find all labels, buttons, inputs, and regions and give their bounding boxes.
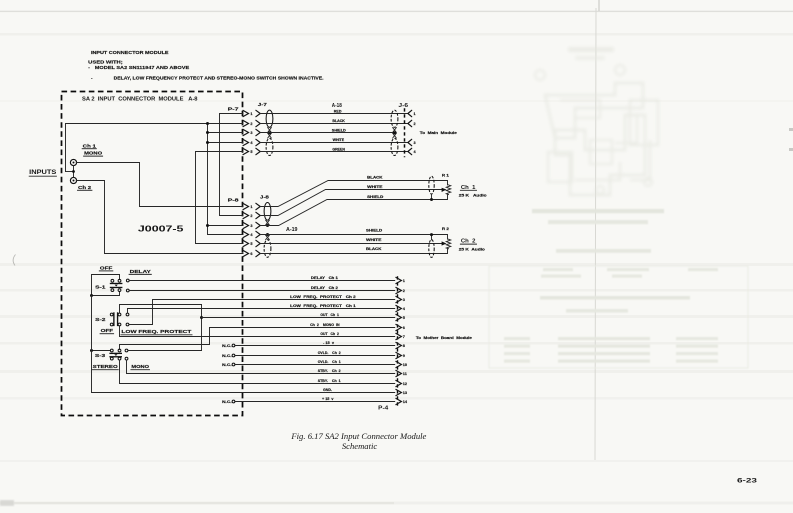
shield stub X at J-6 <box>393 128 397 133</box>
svg-text:J-6: J-6 <box>398 103 408 109</box>
svg-text:WHITE: WHITE <box>333 138 345 142</box>
svg-text:INPUT CONNECTOR MODULE: INPUT CONNECTOR MODULE <box>91 50 169 55</box>
shield stub X at J-7 <box>268 128 272 133</box>
svg-text:INPUTS: INPUTS <box>29 169 56 176</box>
connector J-8 contact 2 <box>256 212 260 218</box>
svg-text:SA 2 INPUT CONNECTOR MODULE: SA 2 INPUT CONNECTOR MODULE A-8 <box>82 96 198 102</box>
svg-text:R 2: R 2 <box>442 227 449 231</box>
svg-text:- 15 v: - 15 v <box>323 341 335 345</box>
switch S-1 frame wiring <box>90 275 120 298</box>
switch S-1 body <box>110 279 123 291</box>
N.C. stub at P-4 pin 10 <box>222 363 395 367</box>
junction: shield to R2 top <box>431 235 433 240</box>
wire: shield bus vertical (P-7 pins 3,4 to P-8 pins 3,4) <box>206 122 243 235</box>
wire: DELAY Ch 1 to P-4 pin 1 <box>129 280 394 282</box>
svg-text:5: 5 <box>250 242 252 246</box>
N.C. stub at P-4 pin 8 <box>222 344 395 348</box>
wire: common bus vertical to GND <box>92 296 395 393</box>
connector J-6 pin 1 <box>408 110 416 116</box>
connector P-4 pin 7 with label <box>320 332 405 340</box>
wire: V1 vertical with OUT Ch 1 tap <box>200 305 203 351</box>
jack Ch 2 input connector <box>70 177 92 190</box>
svg-text:A-19: A-19 <box>286 227 298 233</box>
svg-text:BLACK: BLACK <box>366 247 382 251</box>
wire: S-2 upper contact to LOW FREQ. PROTECT Ch 1 (P-4 pin 4) <box>128 309 395 313</box>
connector P-7 pin 1 <box>243 110 253 116</box>
svg-text:OVLD. Ch 1: OVLD. Ch 1 <box>318 360 341 364</box>
label STEREO <box>92 364 118 370</box>
svg-text:LOW FREQ. PROTECT: LOW FREQ. PROTECT <box>121 329 191 334</box>
wire A-18 SHIELD <box>260 132 394 134</box>
connector J-7 contact 3 <box>256 129 260 135</box>
connector P-4 pin 6 with label <box>310 323 405 331</box>
note: header description text <box>88 50 323 81</box>
wire A-18 WHITE <box>260 142 408 144</box>
svg-text:2: 2 <box>250 122 252 126</box>
connector P-4 pin 1 with label <box>311 276 405 284</box>
module A-8 dashed boundary box <box>62 92 243 416</box>
svg-text:- MODEL SA2 SN111947 AND ABO: - MODEL SA2 SN111947 AND ABOVE <box>88 65 189 70</box>
svg-text:R 1: R 1 <box>442 174 449 178</box>
N.C. stub at P-4 pin 14 <box>222 400 395 404</box>
connector P-4 pin 12 with label <box>318 379 407 387</box>
svg-text:Fig. 6.17 SA2 Input Connector: Fig. 6.17 SA2 Input Connector Module <box>290 431 426 441</box>
connector P-7 pin 5 <box>243 148 253 154</box>
svg-text:N.C.: N.C. <box>222 354 232 358</box>
svg-text:LOW FREQ. PROTECT Ch 2: LOW FREQ. PROTECT Ch 2 <box>290 295 356 299</box>
cable A-18 shield oval at J-7 (pair 1-2) <box>266 110 273 127</box>
svg-text:3: 3 <box>414 141 416 145</box>
svg-text:USED WITH;: USED WITH; <box>88 60 123 65</box>
shield oval at R2 <box>429 240 434 258</box>
connector P-4 pin 13 with label <box>323 388 407 396</box>
wire: P-8 pin 6 BLACK (Ch 2) to R2 <box>260 249 447 254</box>
svg-text:12: 12 <box>403 382 407 386</box>
svg-text:DELAY Ch 1: DELAY Ch 1 <box>311 276 338 280</box>
svg-text:GREEN: GREEN <box>332 147 345 151</box>
svg-text:3: 3 <box>250 224 252 228</box>
svg-text:Ch 2: Ch 2 <box>78 185 92 190</box>
wire: S-3 frame bottom to STBY Ch 1 (P-4 pin 12) <box>120 360 395 384</box>
svg-text:3: 3 <box>250 131 252 135</box>
svg-text:OFF: OFF <box>101 328 114 333</box>
svg-text:Schematic: Schematic <box>342 441 377 451</box>
connector P-4 pin 4 with label <box>290 304 406 312</box>
wire: S-2 frame top to V1 <box>120 305 202 313</box>
wire: S-2 lower contact to LOW FREQ. PROTECT Ch 2 (P-4 pin 3) <box>129 300 395 325</box>
cable A-18 shield oval at J-6 (pair 4-5) <box>391 138 398 155</box>
wire: S-3 MONO lower contact to STBY Ch 2 (P-4 pin 11) <box>127 360 395 374</box>
switch S-1 output contacts <box>126 279 129 292</box>
svg-text:WHITE: WHITE <box>366 238 382 242</box>
wire: OUT Ch 1 to P-4 pin 5 <box>202 317 395 319</box>
svg-text:N.C.: N.C. <box>222 363 232 367</box>
connector J-7 contact 2 <box>256 120 260 126</box>
svg-text:S-1: S-1 <box>95 285 106 290</box>
jack Ch 1 (MONO) input connector <box>70 143 102 165</box>
label OFF (S-2) <box>100 328 114 334</box>
wire: DELAY Ch 2 to P-4 pin 2 <box>129 290 394 292</box>
svg-text:SHIELD: SHIELD <box>366 229 383 233</box>
label DELAY <box>129 269 152 275</box>
svg-text:6: 6 <box>403 326 405 330</box>
connector P-7 pin 4 <box>243 139 253 145</box>
connector J-7 contact 5 <box>256 148 260 154</box>
wire: J-8 pin 3 diagonal to SHIELD (Ch 1) <box>260 195 447 226</box>
connector P-7 pin 3 <box>243 129 253 135</box>
svg-text:2: 2 <box>250 214 252 218</box>
connector J-6 dashed boundary <box>404 108 406 157</box>
wire: Ch 2 jack to P-8 pin 6 <box>76 181 243 254</box>
svg-text:6-23: 6-23 <box>737 478 758 485</box>
connector J-8 contact 3 <box>256 222 260 228</box>
svg-text:25 K Audio: 25 K Audio <box>459 248 485 252</box>
svg-text:To Mother Board Module: To Mother Board Module <box>416 336 472 340</box>
shield oval at R1 <box>429 176 434 194</box>
svg-text:1: 1 <box>250 205 252 209</box>
connector J-7 contact 4 <box>256 139 260 145</box>
node INPUTS label <box>29 169 56 176</box>
connector J-8 contact 4 <box>256 231 260 237</box>
wire: S-3 MONO upper contact to V1 bottom <box>128 350 201 352</box>
potentiometer R2 body <box>446 239 450 249</box>
connector P-8 pin 1 <box>243 203 253 209</box>
svg-text:OUT Ch 2: OUT Ch 2 <box>320 332 339 336</box>
cable shield oval at J-8 (Ch 1 pair) <box>264 203 271 221</box>
wire: P-7 pin 5 to P-8 pin 5 <box>196 152 244 244</box>
wire A-18 RED <box>260 113 408 115</box>
svg-text:13: 13 <box>403 391 407 395</box>
junction: Ch 2 shield at A-19 <box>266 233 269 236</box>
wire A-18 GREEN <box>260 151 408 153</box>
N.C. stub at P-4 pin 9 <box>222 354 395 358</box>
svg-text:8: 8 <box>403 344 405 348</box>
wire: jack common tie with junction <box>66 166 75 178</box>
svg-text:RED: RED <box>334 110 342 114</box>
svg-text:To Main Module: To Main Module <box>420 131 457 135</box>
svg-text:P-4: P-4 <box>378 405 388 411</box>
connector P-4 pin 9 with label <box>318 351 405 359</box>
label OFF (S-1) <box>99 265 113 271</box>
svg-text:Ch 1: Ch 1 <box>83 143 97 148</box>
connector J-8 contact 6 <box>256 250 260 256</box>
connector J-6 pin 2 <box>408 120 416 126</box>
connector J-7 contact 1 <box>256 110 260 116</box>
svg-text:DELAY, LOW FREQUENCY PROTECT A: DELAY, LOW FREQUENCY PROTECT AND STEREO-… <box>114 76 324 81</box>
svg-text:2: 2 <box>403 289 405 293</box>
svg-text:WHITE: WHITE <box>367 185 383 189</box>
cable A-18 shield oval at J-6 (pair 1-2) <box>391 110 398 127</box>
cable A-18 shield oval at J-7 (pair 4-5) <box>266 138 273 155</box>
svg-text:GND.: GND. <box>323 388 332 392</box>
connector P-4 pin 8 with label <box>323 341 405 349</box>
svg-text:7: 7 <box>403 335 405 339</box>
junction: shield at J-7 <box>268 131 271 134</box>
svg-text:6: 6 <box>250 252 252 256</box>
svg-text:A-18: A-18 <box>332 103 342 109</box>
svg-text:OFF: OFF <box>100 265 113 270</box>
wire A-18 BLACK <box>260 123 408 125</box>
wire: common bus to S-3 <box>92 350 111 352</box>
wiper arrow of R1 <box>442 188 447 192</box>
svg-text:BLACK: BLACK <box>332 119 345 123</box>
wire: input common up to P-7 pin 2 line <box>66 124 244 172</box>
svg-text:BLACK: BLACK <box>367 176 383 180</box>
svg-text:N.C.: N.C. <box>222 344 232 348</box>
connector P-8 pin 4 <box>243 231 253 237</box>
connector P-4 pin 10 with label <box>318 360 407 368</box>
svg-text:MONO: MONO <box>131 364 149 369</box>
shield stub at A-19 oval <box>266 235 270 239</box>
connector P-4 pin 14 with label <box>322 397 408 405</box>
svg-text:SHIELD: SHIELD <box>367 195 384 199</box>
switch S-3 body <box>109 349 122 360</box>
svg-text:5: 5 <box>250 150 252 154</box>
wire: Ch 2 MONO IN to P-4 pin 6 <box>210 327 395 329</box>
label MONO <box>131 364 150 370</box>
wire: P-7 pin 1 to P-8 pin 2 <box>220 114 244 216</box>
svg-text:1: 1 <box>403 279 405 283</box>
switch S-2 input contacts <box>126 313 129 326</box>
connector J-6 pin 4 <box>408 148 417 154</box>
potentiometer R1 body <box>446 185 450 195</box>
wire: Ch 1 jack to P-8 pin 1 <box>76 163 243 207</box>
svg-text:+ 15 v: + 15 v <box>322 397 334 401</box>
connector P-8 pin 2 <box>243 212 253 218</box>
svg-text:P-7: P-7 <box>228 107 240 112</box>
label LOW FREQ. PROTECT <box>121 329 192 335</box>
connector P-8 pin 6 <box>243 250 253 256</box>
cable A-19 shield oval (Ch 2 pair) <box>264 240 271 258</box>
wire: V2 Ch 2 MONO IN riser <box>120 328 210 350</box>
svg-text:S-3: S-3 <box>95 353 106 358</box>
label Ch 1 / 25 K Audio <box>459 185 487 198</box>
svg-text:1: 1 <box>414 112 416 116</box>
svg-text:Ch 2 MONO IN: Ch 2 MONO IN <box>310 323 340 327</box>
svg-text:J-8: J-8 <box>260 194 270 199</box>
svg-text:MONO: MONO <box>84 151 102 156</box>
svg-text:J-7: J-7 <box>258 102 268 107</box>
connector P-4 dashed boundary <box>397 276 399 406</box>
svg-text:11: 11 <box>403 372 407 376</box>
connector J-8 contact 1 <box>256 203 260 209</box>
svg-text:3: 3 <box>403 298 405 302</box>
switch S-2 body <box>110 312 121 326</box>
svg-text:LOW FREQ. PROTECT Ch 1: LOW FREQ. PROTECT Ch 1 <box>290 304 356 308</box>
wiper arrow of R2 <box>442 241 447 245</box>
svg-text:25 K Audio: 25 K Audio <box>459 194 487 198</box>
connector P-7 pin 2 <box>243 120 253 126</box>
wire: P-8 pin 4 SHIELD (Ch 2) to R2 <box>260 235 447 240</box>
svg-text:5: 5 <box>403 316 405 320</box>
svg-text:N.C.: N.C. <box>222 400 232 404</box>
junction: shield to R1 bottom <box>431 194 433 200</box>
junction: Ch 1 shield at J-8 <box>266 224 269 227</box>
connector P-4 pin 11 with label <box>318 369 407 377</box>
svg-text:OVLD. Ch 2: OVLD. Ch 2 <box>318 351 341 355</box>
connector P-4 pin 2 with label <box>311 286 405 294</box>
svg-text:STBY. Ch 2: STBY. Ch 2 <box>318 369 341 373</box>
junction: bus at S-3 <box>90 349 93 352</box>
svg-text:STEREO: STEREO <box>93 364 118 369</box>
svg-text:STBY. Ch 1: STBY. Ch 1 <box>318 379 341 383</box>
wire: S-2 frame bottom to OUT Ch 2 (P-4 pin 7) <box>120 326 395 337</box>
svg-text:2: 2 <box>414 122 416 126</box>
svg-text:J0007-5: J0007-5 <box>138 224 184 233</box>
junction: shield at J-6 <box>393 131 396 134</box>
connector J-6 pin 3 <box>408 139 416 145</box>
wire: P-8 pin 5 WHITE (Ch 2 wiper) <box>260 243 443 245</box>
svg-text:OUT Ch 1: OUT Ch 1 <box>320 313 339 317</box>
connector P-4 pin 3 with label <box>290 295 405 303</box>
svg-text:SHIELD: SHIELD <box>332 129 347 133</box>
wire: J-8 pin 2 diagonal to WHITE (Ch 1 wiper) <box>260 190 443 216</box>
connector J-8 contact 5 <box>256 240 260 246</box>
caption: figure title <box>290 431 426 451</box>
svg-text:9: 9 <box>403 354 405 358</box>
shield stub X at J-8 <box>266 220 270 225</box>
connector P-8 pin 5 <box>243 240 253 246</box>
connector P-4 pin 5 with label <box>320 313 405 321</box>
wire: J-8 pin 1 diagonal to BLACK (Ch 1) <box>260 181 447 207</box>
svg-text:P-8: P-8 <box>228 197 240 202</box>
svg-text:DELAY: DELAY <box>130 269 152 274</box>
connector P-8 pin 3 <box>243 222 253 228</box>
svg-text:1: 1 <box>250 112 252 116</box>
svg-text:DELAY Ch 2: DELAY Ch 2 <box>311 286 338 290</box>
svg-text:S-2: S-2 <box>95 317 106 322</box>
label Ch 2 / 25 K Audio <box>459 239 485 252</box>
svg-text:10: 10 <box>403 363 407 367</box>
switch S-3 MONO contacts <box>125 349 128 360</box>
